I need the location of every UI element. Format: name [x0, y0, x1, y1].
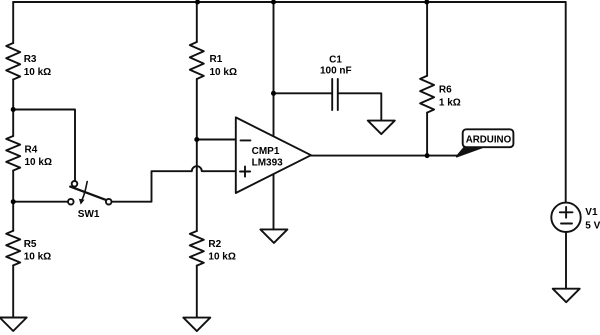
ground G2: [183, 318, 210, 332]
wire top rail to R1: [196, 2, 198, 42]
switch SW1: [68, 181, 111, 205]
svg-text:R4: R4: [25, 145, 38, 156]
wire top rail to R6: [426, 2, 428, 76]
ground G5: [553, 289, 580, 303]
wire V1 bottom to ground: [565, 232, 567, 289]
wire left rail top to R3: [12, 2, 14, 43]
svg-text:R1: R1: [210, 54, 223, 65]
resistor R6: [420, 76, 434, 113]
wire R3 bottom to R4 top: [12, 80, 14, 137]
wire R4 bottom to R5 top: [12, 171, 14, 231]
svg-text:R2: R2: [208, 239, 221, 250]
svg-text:5 V: 5 V: [585, 221, 600, 232]
wire C1 right lead to ground: [339, 93, 382, 120]
op-amp CMP1: [236, 117, 311, 193]
junction output node: [425, 153, 430, 158]
flag ARDUINO: [457, 129, 514, 156]
ground G1: [0, 318, 27, 332]
svg-text:1 kΩ: 1 kΩ: [439, 97, 461, 108]
junction top rail supply: [271, 0, 276, 5]
wire R2 bottom to ground: [196, 266, 198, 318]
junction node A: [11, 107, 16, 112]
wire top rail: [13, 1, 566, 3]
capacitor C1: [332, 79, 338, 110]
voltage source V1: [551, 203, 580, 232]
svg-text:LM393: LM393: [252, 158, 284, 169]
svg-text:V1: V1: [585, 207, 598, 218]
ground G4: [368, 121, 395, 135]
resistor R5: [6, 231, 20, 266]
wire R1 bottom to R2 top: [196, 79, 198, 231]
wire top rail to V1: [565, 2, 567, 203]
svg-text:R6: R6: [439, 85, 452, 96]
resistor R2: [190, 231, 204, 266]
wire op-amp negative supply to ground: [273, 174, 275, 229]
svg-text:ARDUINO: ARDUINO: [466, 135, 512, 146]
resistor R1: [190, 42, 204, 79]
wire R5 bottom to ground: [12, 265, 14, 317]
junction top rail R1: [195, 0, 200, 5]
op-amp plus pin symbol: [240, 167, 250, 177]
wire op-amp output: [311, 155, 458, 157]
wire node A to switch top: [13, 110, 75, 181]
junction minus input: [194, 137, 199, 142]
svg-text:R5: R5: [24, 239, 37, 250]
svg-text:C1: C1: [329, 54, 342, 65]
wire node B to switch left: [13, 201, 68, 203]
junction top rail R6: [424, 0, 429, 5]
junction node B: [11, 199, 16, 204]
junction C1 node: [271, 91, 276, 96]
svg-text:R3: R3: [24, 54, 37, 65]
resistor R4: [6, 136, 20, 171]
svg-text:100 nF: 100 nF: [320, 65, 352, 76]
wire switch right to op-amp plus input with hop: [112, 166, 236, 201]
svg-text:10 kΩ: 10 kΩ: [208, 251, 235, 262]
svg-text:10 kΩ: 10 kΩ: [24, 67, 51, 78]
wire minus input: [197, 139, 235, 141]
svg-text:SW1: SW1: [78, 209, 100, 220]
resistor R3: [6, 43, 20, 80]
op-amp minus pin symbol: [241, 139, 251, 141]
wire C1 left lead: [274, 92, 332, 94]
wire R6 bottom to output node: [426, 113, 428, 156]
svg-text:10 kΩ: 10 kΩ: [210, 67, 237, 78]
svg-text:10 kΩ: 10 kΩ: [25, 157, 52, 168]
wire op-amp positive supply: [273, 2, 275, 136]
svg-text:CMP1: CMP1: [252, 146, 280, 157]
ground G3: [260, 229, 287, 243]
svg-text:10 kΩ: 10 kΩ: [24, 252, 51, 263]
